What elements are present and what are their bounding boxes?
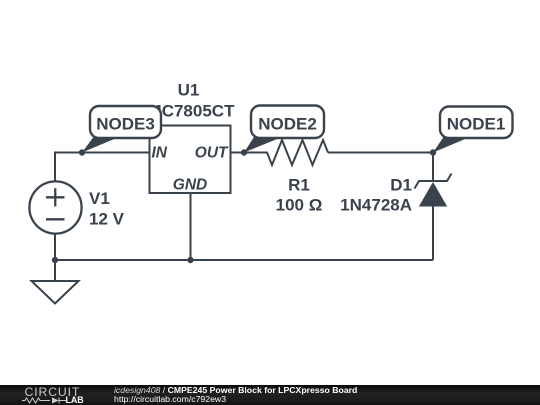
junction dot bottom left [52,257,58,263]
svg-text:IN: IN [152,145,168,162]
svg-text:LAB: LAB [66,395,84,405]
svg-text:NODE1: NODE1 [447,115,506,134]
node NODE1 flag [433,107,513,153]
node dot NODE2 [241,149,247,155]
wire node1 down to zener [432,153,434,183]
node dot NODE3 [79,149,85,155]
node dot NODE1 [430,149,436,155]
CircuitLab logo [0,385,95,405]
footer text [114,386,357,405]
svg-text:V1: V1 [89,189,110,208]
zener diode D1 cathode bar [415,174,452,189]
svg-text:1N4728A: 1N4728A [340,196,412,215]
ground [32,281,79,304]
svg-text:NODE3: NODE3 [96,115,155,134]
svg-text:D1: D1 [390,176,412,195]
svg-text:OUT: OUT [195,145,229,162]
svg-text:R1: R1 [288,176,310,195]
svg-text:GND: GND [173,177,207,194]
voltage regulator U1 body [150,126,231,194]
wire rail to ground [54,260,56,281]
resistor R1 [244,140,328,165]
wire OUT pin to R1 node [231,152,268,154]
svg-text:100 Ω: 100 Ω [276,196,323,215]
svg-text:NODE2: NODE2 [258,115,317,134]
footer bar [0,385,540,405]
wire U1 GND pin down [190,193,192,260]
svg-text:12 V: 12 V [89,210,125,229]
node NODE3 flag [82,106,161,153]
wire R1 right lead to D1 node [328,152,433,154]
wire zener to bottom rail [432,206,434,261]
wire bottom rail [55,259,433,261]
wire V1 bottom to rail [54,233,56,260]
voltage source V1 [29,181,81,233]
zener diode D1 anode triangle [419,182,447,207]
junction dot GND rail [187,257,193,263]
wire top from V1 to U1 IN [55,153,150,183]
svg-text:U1: U1 [178,81,200,100]
node NODE2 flag [244,106,324,153]
